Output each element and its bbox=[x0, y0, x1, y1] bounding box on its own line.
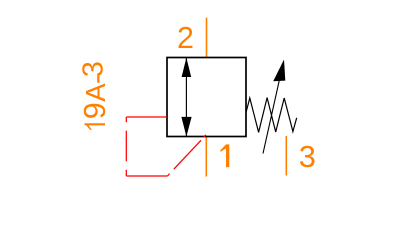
svg-text:3: 3 bbox=[78, 61, 110, 77]
port 3 line bbox=[285, 136, 287, 176]
pilot line: vertical drop dash 2 bbox=[125, 131, 127, 162]
pilot line: diagonal dash 2 bbox=[174, 140, 201, 169]
port 1 line bbox=[205, 137, 207, 177]
spring bbox=[246, 98, 297, 133]
svg-text:9: 9 bbox=[78, 102, 112, 119]
svg-text:2: 2 bbox=[177, 21, 194, 55]
flow arrow head down bbox=[181, 117, 191, 137]
svg-text:3: 3 bbox=[299, 140, 316, 174]
flow arrow shaft bbox=[185, 58, 187, 136]
pilot line: diagonal dash 1 bbox=[168, 174, 170, 176]
adjustment arrow head bbox=[273, 60, 285, 82]
port 2 line bbox=[206, 18, 208, 58]
pilot line: vertical drop dash 3 bbox=[125, 170, 127, 176]
component label 19A-3: custom 1 bbox=[85, 123, 105, 130]
pilot line: horizontal from valve left edge bbox=[126, 116, 167, 118]
port 1 label (custom Arial-style 1) bbox=[220, 144, 229, 167]
valve body envelope bbox=[167, 58, 246, 137]
pilot line: vertical drop dash 1 bbox=[125, 117, 127, 122]
flow arrow head up bbox=[182, 58, 192, 77]
adjustment arrow shaft bbox=[263, 81, 279, 154]
pilot line: bottom horizontal bbox=[126, 175, 167, 177]
pilot line: diagonal dash 3 (junction tick at port 1) bbox=[204, 135, 206, 137]
svg-text:A: A bbox=[80, 83, 111, 102]
